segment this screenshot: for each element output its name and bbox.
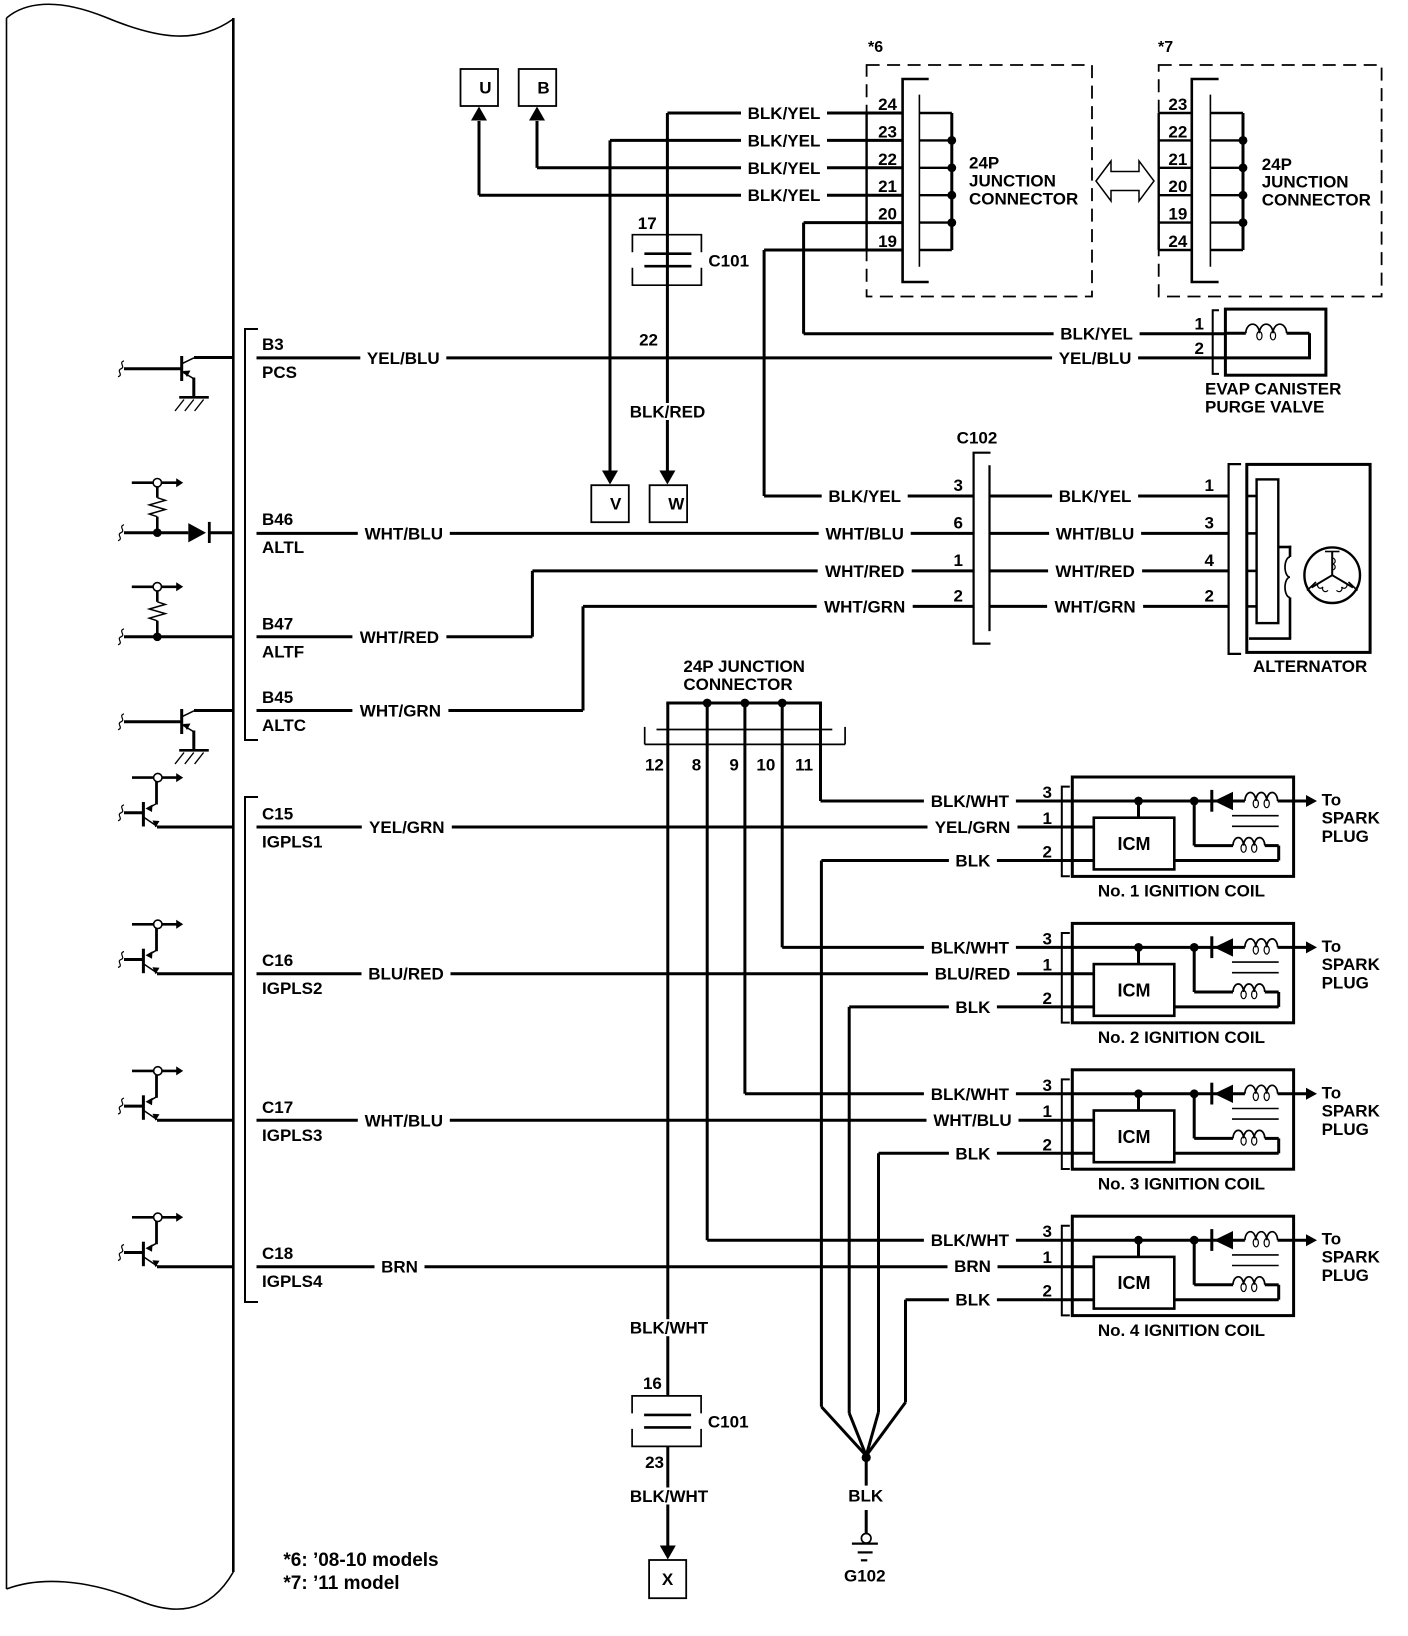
svg-text:To: To (1322, 1083, 1342, 1102)
svg-text:BLU/RED: BLU/RED (935, 964, 1011, 983)
svg-text:PLUG: PLUG (1322, 1120, 1369, 1139)
svg-text:C101: C101 (708, 252, 749, 271)
svg-text:22: 22 (639, 331, 658, 350)
svg-text:To: To (1322, 1230, 1342, 1249)
svg-text:2: 2 (1205, 586, 1214, 605)
svg-text:BLK/YEL: BLK/YEL (828, 487, 901, 506)
svg-text:No. 3 IGNITION COIL: No. 3 IGNITION COIL (1098, 1174, 1265, 1193)
svg-text:IGPLS1: IGPLS1 (262, 833, 322, 852)
svg-text:YEL/BLU: YEL/BLU (367, 349, 440, 368)
svg-text:B46: B46 (262, 510, 293, 529)
svg-text:PLUG: PLUG (1322, 1266, 1369, 1285)
svg-text:PLUG: PLUG (1322, 973, 1369, 992)
svg-text:BLK/YEL: BLK/YEL (748, 186, 821, 205)
svg-text:WHT/RED: WHT/RED (1055, 562, 1134, 581)
svg-text:24: 24 (1168, 232, 1187, 251)
svg-text:X: X (662, 1570, 674, 1589)
svg-text:V: V (610, 495, 622, 514)
svg-text:PCS: PCS (262, 363, 297, 382)
svg-text:24P JUNCTION: 24P JUNCTION (683, 657, 805, 676)
svg-text:1: 1 (1043, 1248, 1052, 1267)
svg-text:C16: C16 (262, 951, 293, 970)
svg-text:BLK: BLK (955, 998, 991, 1017)
svg-text:BLK/YEL: BLK/YEL (748, 104, 821, 123)
svg-text:BLK: BLK (848, 1487, 884, 1506)
svg-text:U: U (479, 79, 491, 98)
svg-text:16: 16 (643, 1374, 662, 1393)
svg-text:BLK: BLK (955, 852, 991, 871)
svg-text:10: 10 (756, 755, 775, 774)
svg-text:BLK/WHT: BLK/WHT (931, 792, 1010, 811)
svg-text:WHT/GRN: WHT/GRN (824, 597, 905, 616)
svg-text:No. 4 IGNITION COIL: No. 4 IGNITION COIL (1098, 1321, 1265, 1340)
svg-text:No. 1 IGNITION COIL: No. 1 IGNITION COIL (1098, 882, 1265, 901)
svg-text:BLK/RED: BLK/RED (630, 403, 706, 422)
svg-text:WHT/GRN: WHT/GRN (360, 702, 441, 721)
svg-text:BLK/WHT: BLK/WHT (931, 938, 1010, 957)
svg-text:WHT/BLU: WHT/BLU (365, 1111, 443, 1130)
svg-text:C102: C102 (957, 429, 998, 448)
svg-text:BLU/RED: BLU/RED (368, 965, 444, 984)
svg-text:ICM: ICM (1118, 834, 1151, 854)
svg-text:BRN: BRN (954, 1257, 991, 1276)
svg-text:BRN: BRN (381, 1258, 418, 1277)
svg-text:YEL/BLU: YEL/BLU (1059, 349, 1132, 368)
svg-text:BLK/WHT: BLK/WHT (931, 1231, 1010, 1250)
svg-text:SPARK: SPARK (1322, 809, 1381, 828)
svg-text:20: 20 (878, 205, 897, 224)
svg-text:6: 6 (954, 513, 963, 532)
svg-text:WHT/RED: WHT/RED (825, 562, 904, 581)
svg-text:1: 1 (1205, 476, 1214, 495)
svg-text:2: 2 (954, 586, 963, 605)
svg-text:No. 2 IGNITION COIL: No. 2 IGNITION COIL (1098, 1028, 1265, 1047)
svg-text:C101: C101 (708, 1413, 749, 1432)
svg-text:JUNCTION: JUNCTION (1262, 173, 1349, 192)
svg-text:JUNCTION: JUNCTION (969, 172, 1056, 191)
svg-text:PURGE VALVE: PURGE VALVE (1205, 398, 1324, 417)
svg-text:B45: B45 (262, 688, 293, 707)
svg-text:BLK/YEL: BLK/YEL (1059, 487, 1132, 506)
svg-text:IGPLS4: IGPLS4 (262, 1272, 323, 1291)
svg-text:11: 11 (795, 755, 813, 774)
svg-text:21: 21 (878, 177, 897, 196)
svg-text:22: 22 (1168, 122, 1187, 141)
svg-text:To: To (1322, 791, 1342, 810)
svg-text:24: 24 (878, 95, 897, 114)
svg-text:2: 2 (1043, 989, 1052, 1008)
svg-text:ICM: ICM (1118, 1127, 1151, 1147)
svg-text:BLK: BLK (955, 1144, 991, 1163)
svg-text:*6: ’08-10 models: *6: ’08-10 models (283, 1550, 438, 1571)
svg-text:8: 8 (692, 755, 701, 774)
svg-text:WHT/BLU: WHT/BLU (826, 524, 904, 543)
svg-text:19: 19 (1168, 205, 1187, 224)
svg-text:SPARK: SPARK (1322, 955, 1381, 974)
svg-text:1: 1 (1043, 955, 1052, 974)
svg-text:22: 22 (878, 150, 897, 169)
svg-text:9: 9 (729, 755, 738, 774)
svg-text:19: 19 (878, 232, 897, 251)
svg-text:1: 1 (1195, 315, 1204, 334)
svg-text:W: W (668, 495, 685, 514)
svg-text:3: 3 (954, 476, 963, 495)
svg-text:CONNECTOR: CONNECTOR (1262, 190, 1371, 209)
svg-text:17: 17 (638, 214, 657, 233)
svg-text:3: 3 (1043, 929, 1052, 948)
svg-text:3: 3 (1043, 783, 1052, 802)
svg-text:BLK: BLK (955, 1291, 991, 1310)
svg-text:BLK/WHT: BLK/WHT (630, 1319, 709, 1338)
svg-text:C15: C15 (262, 805, 293, 824)
svg-text:EVAP CANISTER: EVAP CANISTER (1205, 380, 1341, 399)
svg-text:WHT/GRN: WHT/GRN (1054, 597, 1135, 616)
svg-text:G102: G102 (844, 1566, 886, 1585)
svg-text:B3: B3 (262, 335, 284, 354)
svg-text:21: 21 (1168, 150, 1187, 169)
svg-text:BLK/YEL: BLK/YEL (1060, 325, 1133, 344)
svg-text:2: 2 (1195, 339, 1204, 358)
svg-text:WHT/BLU: WHT/BLU (933, 1111, 1011, 1130)
svg-text:YEL/GRN: YEL/GRN (369, 818, 445, 837)
svg-text:*6: *6 (868, 39, 883, 56)
svg-text:20: 20 (1168, 177, 1187, 196)
svg-text:ALTC: ALTC (262, 716, 306, 735)
svg-text:WHT/BLU: WHT/BLU (1056, 524, 1134, 543)
svg-text:PLUG: PLUG (1322, 827, 1369, 846)
svg-text:3: 3 (1205, 513, 1214, 532)
svg-text:2: 2 (1043, 1135, 1052, 1154)
svg-text:ALTL: ALTL (262, 538, 304, 557)
svg-text:ICM: ICM (1118, 980, 1151, 1000)
svg-text:1: 1 (954, 551, 963, 570)
svg-text:23: 23 (1168, 95, 1187, 114)
svg-text:1: 1 (1043, 1102, 1052, 1121)
svg-text:To: To (1322, 937, 1342, 956)
svg-text:WHT/BLU: WHT/BLU (365, 524, 443, 543)
svg-text:BLK/YEL: BLK/YEL (748, 159, 821, 178)
svg-text:CONNECTOR: CONNECTOR (683, 675, 792, 694)
svg-text:*7: *7 (1158, 39, 1173, 56)
svg-text:ICM: ICM (1118, 1273, 1151, 1293)
svg-text:B47: B47 (262, 614, 293, 633)
svg-text:2: 2 (1043, 1282, 1052, 1301)
svg-text:1: 1 (1043, 809, 1052, 828)
svg-text:YEL/GRN: YEL/GRN (935, 818, 1011, 837)
svg-text:23: 23 (878, 122, 897, 141)
svg-text:BLK/WHT: BLK/WHT (931, 1085, 1010, 1104)
svg-text:CONNECTOR: CONNECTOR (969, 190, 1078, 209)
svg-text:BLK/YEL: BLK/YEL (748, 131, 821, 150)
svg-text:24P: 24P (969, 154, 999, 173)
svg-text:WHT/RED: WHT/RED (360, 628, 439, 647)
svg-text:24P: 24P (1262, 155, 1292, 174)
svg-text:3: 3 (1043, 1222, 1052, 1241)
svg-text:3: 3 (1043, 1076, 1052, 1095)
svg-text:4: 4 (1205, 551, 1215, 570)
svg-text:23: 23 (645, 1453, 664, 1472)
svg-text:C17: C17 (262, 1098, 293, 1117)
svg-text:BLK/WHT: BLK/WHT (630, 1487, 709, 1506)
svg-text:12: 12 (645, 755, 664, 774)
svg-text:B: B (537, 79, 549, 98)
svg-text:C18: C18 (262, 1244, 293, 1263)
svg-text:*7: ’11 model: *7: ’11 model (283, 1573, 399, 1594)
svg-text:ALTF: ALTF (262, 642, 304, 661)
svg-text:2: 2 (1043, 843, 1052, 862)
svg-text:IGPLS3: IGPLS3 (262, 1126, 322, 1145)
svg-text:ALTERNATOR: ALTERNATOR (1253, 657, 1367, 676)
svg-text:SPARK: SPARK (1322, 1248, 1381, 1267)
svg-text:SPARK: SPARK (1322, 1101, 1381, 1120)
svg-text:IGPLS2: IGPLS2 (262, 979, 322, 998)
